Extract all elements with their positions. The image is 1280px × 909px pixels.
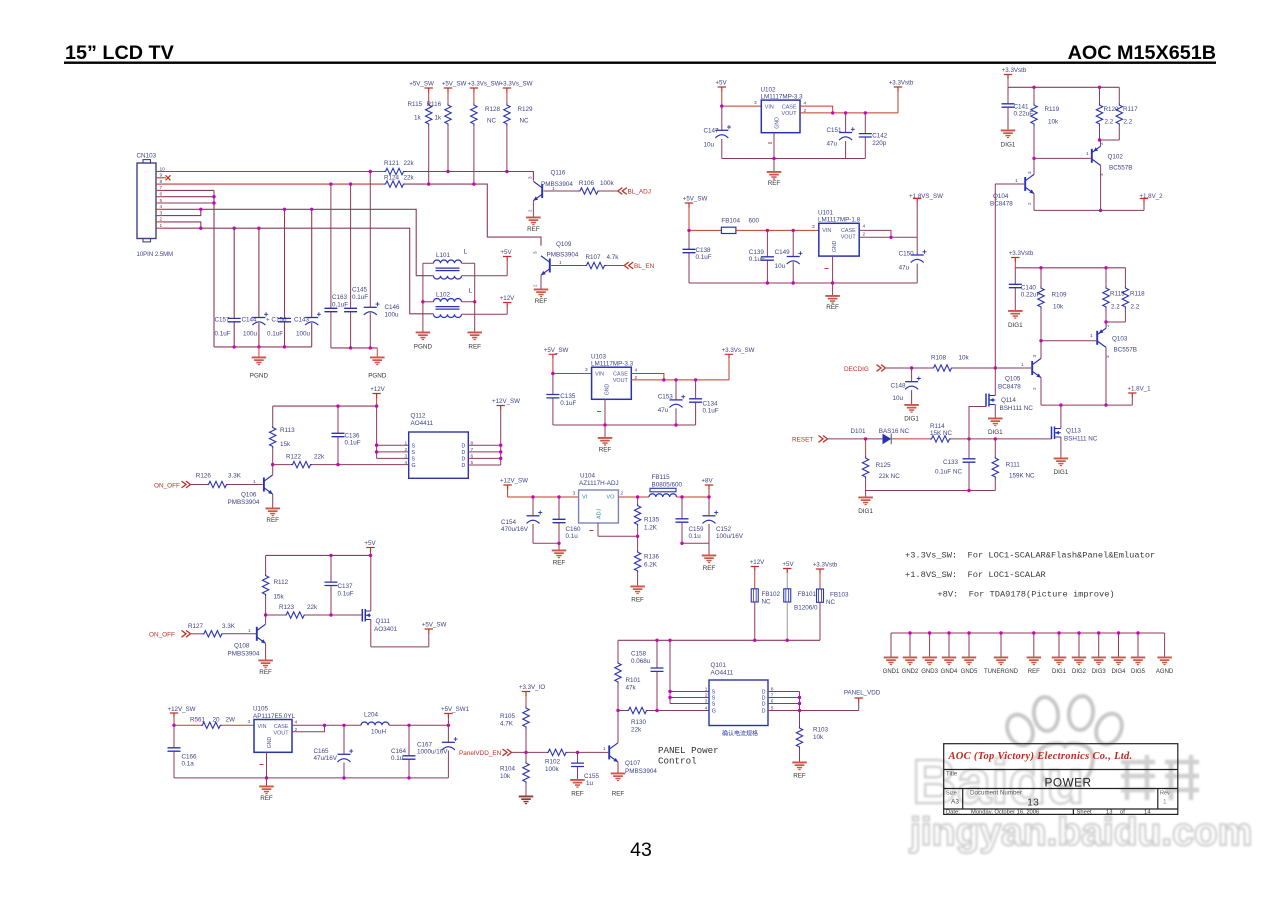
capacitor C153 bbox=[675, 380, 677, 425]
svg-text:确认电流规格: 确认电流规格 bbox=[722, 730, 758, 738]
CN103 pin 7 stub bbox=[156, 189, 164, 191]
wire NC bottom rail bbox=[866, 479, 996, 491]
svg-text:LM1117MP-3.3: LM1117MP-3.3 bbox=[591, 361, 634, 368]
wire U104 output row bbox=[618, 496, 649, 498]
svg-text:C140: C140 bbox=[1021, 285, 1037, 292]
power flag PANEL_VDD bbox=[855, 698, 863, 703]
ground PGND (cap bank 1) bbox=[258, 347, 260, 357]
svg-text:R115: R115 bbox=[1110, 291, 1125, 298]
ground AGND bbox=[1164, 633, 1166, 657]
ground REF (Q107) bbox=[611, 773, 626, 782]
ground REF (U101) bbox=[825, 295, 840, 304]
wire Q102 emitter to resistors bbox=[1100, 140, 1102, 146]
svg-text:Q107: Q107 bbox=[625, 760, 641, 767]
ground GND2 bbox=[909, 633, 911, 657]
svg-text:Q116: Q116 bbox=[551, 170, 566, 177]
svg-text:+3.3Vstb: +3.3Vstb bbox=[813, 562, 838, 569]
svg-text:2: 2 bbox=[863, 232, 866, 238]
connector CN103 bbox=[137, 163, 156, 239]
svg-text:600: 600 bbox=[749, 218, 760, 225]
svg-text:CN103: CN103 bbox=[137, 153, 157, 160]
svg-text:+12V_SW: +12V_SW bbox=[492, 398, 520, 405]
power flag +5V_SW (U103 in) bbox=[549, 354, 557, 359]
svg-text:S: S bbox=[412, 457, 416, 463]
svg-text:AOC M15X651B: AOC M15X651B bbox=[1068, 42, 1216, 64]
wire ON_OFF to R127 bbox=[191, 633, 202, 635]
svg-text:4: 4 bbox=[160, 204, 163, 210]
capacitor C141 bbox=[1007, 87, 1009, 129]
svg-text:100k: 100k bbox=[545, 766, 560, 773]
svg-text:0.1uF: 0.1uF bbox=[267, 331, 283, 338]
power flag +1.8V_1 bbox=[1128, 393, 1136, 398]
svg-text:DIG4: DIG4 bbox=[1111, 669, 1126, 675]
svg-text:2: 2 bbox=[528, 209, 533, 212]
svg-text:S: S bbox=[412, 443, 416, 449]
wire +12V rail (Q112) bbox=[273, 405, 377, 407]
svg-text:22k: 22k bbox=[404, 174, 415, 181]
wire R126 to Q106 base bbox=[228, 484, 263, 486]
svg-text:2: 2 bbox=[804, 108, 807, 114]
resistor R119 bbox=[1033, 87, 1035, 103]
wire C159/C152 ground rail bbox=[682, 542, 709, 544]
capacitor C136 bbox=[337, 406, 339, 465]
wire choke ground verticals bbox=[423, 263, 475, 302]
svg-text:R104: R104 bbox=[500, 766, 516, 773]
svg-text:C138: C138 bbox=[696, 247, 712, 254]
svg-text:1u: 1u bbox=[586, 780, 594, 787]
svg-text:ADJ: ADJ bbox=[597, 509, 603, 519]
svg-text:G: G bbox=[412, 463, 416, 469]
svg-text:220p: 220p bbox=[872, 140, 887, 147]
transistor Q116 PMBS3904 bbox=[541, 184, 543, 198]
svg-text:+5V: +5V bbox=[364, 540, 376, 547]
svg-text:3: 3 bbox=[812, 224, 815, 230]
wire Q113 source to ground bbox=[1060, 437, 1062, 458]
resistor R129 bbox=[506, 93, 508, 104]
svg-text:C163: C163 bbox=[332, 294, 348, 301]
wire Q116 base to R106 bbox=[544, 190, 579, 192]
svg-text:C150: C150 bbox=[899, 251, 915, 258]
svg-text:1: 1 bbox=[1021, 362, 1024, 368]
power flag +5V_SW (Q111 out) bbox=[425, 629, 433, 634]
svg-text:+5V_SW: +5V_SW bbox=[409, 81, 434, 88]
svg-text:+3.3Vstb: +3.3Vstb bbox=[1009, 250, 1034, 257]
capacitor C167 bbox=[447, 725, 449, 778]
transistor Q104 BC8478 bbox=[1024, 177, 1026, 191]
svg-text:DIG1: DIG1 bbox=[1008, 322, 1023, 329]
capacitor C135 bbox=[552, 374, 554, 426]
svg-text:1: 1 bbox=[405, 440, 408, 446]
svg-text:REF: REF bbox=[259, 669, 272, 676]
resistor R116 bbox=[447, 93, 449, 104]
wire R114 to Q113 gate bbox=[951, 438, 1052, 440]
svg-text:AO4411: AO4411 bbox=[711, 669, 734, 676]
mosfet Q113 BSH111 NC bbox=[1051, 427, 1053, 440]
inductor L204 bbox=[361, 722, 389, 725]
inductor L102 bbox=[434, 298, 462, 301]
svg-text:+3.3Vs_SW: +3.3Vs_SW bbox=[468, 81, 501, 88]
svg-text:2.2: 2.2 bbox=[1124, 119, 1133, 126]
CN103 pin 9 stub bbox=[156, 177, 164, 179]
svg-text:15k: 15k bbox=[274, 594, 285, 601]
svg-text:1: 1 bbox=[1015, 178, 1018, 184]
svg-text:L: L bbox=[464, 249, 468, 256]
capacitor C152 bbox=[708, 497, 710, 543]
capacitor C147 bbox=[721, 106, 723, 158]
svg-text:+5V: +5V bbox=[715, 80, 727, 87]
resistor R111 bbox=[992, 457, 998, 479]
svg-text:BC8478: BC8478 bbox=[998, 384, 1021, 391]
svg-text:R112: R112 bbox=[274, 579, 289, 586]
svg-text:22k: 22k bbox=[404, 160, 415, 167]
diode D101 BAS16 NC bbox=[883, 434, 892, 445]
svg-text:REF: REF bbox=[599, 447, 612, 454]
svg-text:C141: C141 bbox=[1014, 104, 1030, 111]
capacitor C146 bbox=[369, 172, 371, 348]
ground DIG3 bbox=[1098, 633, 1100, 657]
power flag +3.3Vstb (U102 out) bbox=[894, 87, 902, 92]
CN103 pin 10 stub bbox=[156, 171, 164, 173]
svg-text:4: 4 bbox=[405, 460, 408, 466]
svg-text:C137: C137 bbox=[338, 583, 354, 590]
CN103 pin 2 stub bbox=[156, 221, 164, 223]
capacitor C134 bbox=[695, 380, 697, 425]
resistor R109 bbox=[1040, 268, 1042, 287]
svg-text:+12V: +12V bbox=[500, 295, 515, 302]
svg-text:C144: C144 bbox=[242, 317, 258, 324]
svg-text:2.2: 2.2 bbox=[1105, 119, 1114, 126]
wire pins 7,6,5 to ground bus bbox=[164, 190, 215, 347]
capacitor C160 bbox=[558, 497, 560, 543]
svg-text:NC: NC bbox=[487, 118, 497, 125]
wire U101 ground rail bbox=[689, 256, 917, 283]
svg-text:VOUT: VOUT bbox=[841, 234, 857, 240]
svg-text:C135: C135 bbox=[560, 393, 576, 400]
mosfet Q111 AO3401 bbox=[361, 609, 363, 622]
svg-text:+1.8V_1: +1.8V_1 bbox=[1127, 386, 1151, 393]
svg-text:2: 2 bbox=[405, 447, 408, 453]
svg-text:FB103: FB103 bbox=[830, 592, 849, 599]
svg-text:+3.3Vs_SW: For LOC1-SCALAR&Fl: +3.3Vs_SW: For LOC1-SCALAR&Flash&Panel&E… bbox=[905, 551, 1155, 561]
svg-text:CASE: CASE bbox=[782, 105, 797, 111]
svg-text:+3.3Vstb: +3.3Vstb bbox=[1002, 67, 1027, 74]
svg-text:C134: C134 bbox=[703, 401, 719, 408]
power flag +12V (Q112) bbox=[372, 394, 380, 399]
svg-text:R117: R117 bbox=[1123, 106, 1138, 113]
power flag +3.3Vstb (FB103) bbox=[816, 569, 824, 574]
svg-text:4.7k: 4.7k bbox=[607, 254, 620, 261]
svg-text:GND: GND bbox=[267, 737, 273, 749]
svg-text:2W: 2W bbox=[226, 717, 236, 724]
svg-text:3: 3 bbox=[754, 100, 757, 106]
ground GND4 bbox=[948, 633, 950, 657]
capacitor C156 bbox=[284, 209, 286, 347]
wire Q107 emitter to ground bbox=[617, 762, 619, 773]
svg-text:+12V_SW: +12V_SW bbox=[500, 478, 528, 485]
svg-text:TUNERGND: TUNERGND bbox=[984, 669, 1019, 675]
svg-text:9: 9 bbox=[160, 173, 163, 179]
header underline bbox=[64, 62, 1216, 64]
power flag +5V_SW1 (U105 out) bbox=[444, 714, 452, 719]
wire Q111 drain to +5V_SW bbox=[371, 620, 429, 647]
wire U105 output bbox=[292, 725, 361, 732]
wire Q102 base bbox=[1034, 157, 1091, 159]
power flag +5V_SW bbox=[444, 88, 452, 93]
svg-text:R108: R108 bbox=[931, 355, 947, 362]
wire R106 to BL_ADJ bbox=[600, 190, 618, 192]
svg-text:VIN: VIN bbox=[595, 372, 604, 378]
power flag +5V (FB101) bbox=[783, 569, 791, 574]
svg-text:PANEL_VDD: PANEL_VDD bbox=[844, 690, 881, 697]
svg-text:L: L bbox=[469, 288, 473, 295]
resistor R128 bbox=[473, 93, 475, 104]
capacitor C158 bbox=[656, 640, 658, 710]
wire net pin10 (BL_ADJ drive) bbox=[164, 171, 385, 173]
resistor R135 bbox=[637, 497, 639, 504]
svg-text:VIN: VIN bbox=[258, 724, 267, 730]
ground REF (C160) bbox=[552, 550, 567, 559]
svg-text:1: 1 bbox=[253, 479, 256, 485]
svg-text:3: 3 bbox=[1027, 171, 1032, 174]
resistor R115 bbox=[428, 93, 430, 104]
svg-text:VI: VI bbox=[582, 495, 588, 501]
ground TUNERGND bbox=[1000, 633, 1002, 657]
svg-text:5: 5 bbox=[160, 198, 163, 204]
svg-text:Q109: Q109 bbox=[556, 241, 572, 248]
svg-text:REF: REF bbox=[468, 344, 481, 351]
svg-text:R109: R109 bbox=[1052, 292, 1068, 299]
power flag +1.8VS_SW bbox=[913, 199, 921, 204]
svg-text:REF: REF bbox=[612, 791, 625, 798]
svg-text:R103: R103 bbox=[813, 727, 829, 734]
svg-text:3: 3 bbox=[573, 491, 576, 497]
svg-text:+1.8V_2: +1.8V_2 bbox=[1139, 193, 1163, 200]
svg-text:GND2: GND2 bbox=[902, 669, 919, 675]
svg-text:1: 1 bbox=[1086, 151, 1089, 157]
svg-text:+12V_SW: +12V_SW bbox=[167, 706, 195, 713]
svg-text:3: 3 bbox=[1099, 173, 1104, 176]
svg-text:47u: 47u bbox=[899, 265, 910, 272]
resistor R104 bbox=[525, 752, 527, 761]
svg-text:C153: C153 bbox=[658, 394, 674, 401]
svg-text:REF: REF bbox=[1028, 669, 1040, 675]
svg-text:NC: NC bbox=[826, 599, 836, 606]
svg-text:Q103: Q103 bbox=[1112, 336, 1128, 343]
wire R108 to Q105 base bbox=[953, 367, 1031, 369]
svg-text:BL_ADJ: BL_ADJ bbox=[628, 189, 651, 196]
svg-text:D: D bbox=[762, 709, 766, 715]
svg-text:Control: Control bbox=[658, 756, 697, 767]
resistor R114 bbox=[930, 436, 951, 442]
wire C154/C160 ground rail bbox=[533, 542, 559, 544]
svg-text:R106: R106 bbox=[579, 180, 595, 187]
capacitor C137 bbox=[330, 555, 332, 615]
power flag +5V (choke out) bbox=[503, 257, 511, 262]
transistor Q103 BC557B bbox=[1096, 331, 1098, 345]
resistor R102 bbox=[547, 749, 568, 755]
svg-text:B0805/600: B0805/600 bbox=[652, 481, 683, 488]
wire DECDIG to R108 bbox=[886, 367, 932, 369]
svg-text:CASE: CASE bbox=[274, 724, 289, 730]
svg-text:+1.8VS_SW: +1.8VS_SW bbox=[909, 193, 943, 200]
mosfet array Q101 AO4411 bbox=[709, 680, 768, 726]
wire U103 output bbox=[631, 359, 729, 380]
svg-text:PGND: PGND bbox=[250, 373, 269, 380]
svg-text:2.2: 2.2 bbox=[1111, 304, 1120, 311]
svg-text:D: D bbox=[462, 450, 466, 456]
wire panel top rail bbox=[618, 639, 820, 641]
svg-text:R122: R122 bbox=[286, 454, 302, 461]
svg-text:D: D bbox=[462, 463, 466, 469]
svg-text:C147: C147 bbox=[704, 128, 720, 135]
svg-text:PANEL Power: PANEL Power bbox=[658, 745, 719, 756]
svg-text:Q113: Q113 bbox=[1066, 428, 1081, 435]
svg-text:S: S bbox=[712, 702, 716, 708]
ground DIG4 bbox=[1118, 633, 1120, 657]
svg-text:15k: 15k bbox=[280, 441, 291, 448]
wire Q104 emitter to rail bbox=[1033, 194, 1035, 211]
resistor R561 bbox=[201, 722, 222, 728]
svg-text:100k: 100k bbox=[600, 180, 615, 187]
power flag +1.8V_2 bbox=[1140, 199, 1148, 204]
svg-text:R135: R135 bbox=[644, 517, 660, 524]
svg-text:1: 1 bbox=[248, 628, 251, 634]
transistor Q109 PMBS3904 bbox=[549, 259, 551, 273]
svg-text:GND1: GND1 bbox=[883, 669, 900, 675]
svg-text:159K NC: 159K NC bbox=[1009, 473, 1035, 480]
svg-text:0.1uF: 0.1uF bbox=[345, 440, 361, 447]
svg-text:GND: GND bbox=[774, 117, 780, 129]
transistor Q102 BC557B bbox=[1091, 149, 1093, 163]
svg-text:BC557B: BC557B bbox=[1114, 347, 1137, 354]
svg-text:DIG1: DIG1 bbox=[1001, 142, 1016, 149]
svg-text:22k: 22k bbox=[307, 604, 318, 611]
svg-text:NC: NC bbox=[762, 599, 772, 606]
ground DIG1 (R125) bbox=[865, 491, 867, 497]
svg-text:2: 2 bbox=[533, 284, 538, 287]
wire Q107 collector bbox=[617, 711, 619, 743]
ground REF (Q116) bbox=[526, 217, 541, 226]
svg-text:C154: C154 bbox=[501, 519, 517, 526]
ground REF (R103) bbox=[792, 762, 807, 771]
svg-text:3: 3 bbox=[528, 176, 533, 179]
svg-text:10PIN 2.5MM: 10PIN 2.5MM bbox=[137, 252, 174, 258]
svg-text:PGND: PGND bbox=[368, 373, 387, 380]
svg-text:3.3K: 3.3K bbox=[222, 623, 236, 630]
wire U102 gnd stem bbox=[773, 159, 775, 172]
svg-text:DIG1: DIG1 bbox=[988, 429, 1003, 436]
capacitor C144 bbox=[258, 228, 260, 347]
wire Q114 drain (DECDIG net vertical) bbox=[994, 184, 996, 396]
ground DIG1 (C141) bbox=[1001, 130, 1016, 139]
svg-text:VOUT: VOUT bbox=[274, 731, 290, 737]
svg-text:U102: U102 bbox=[761, 87, 777, 94]
svg-text:Q105: Q105 bbox=[1005, 376, 1021, 383]
svg-text:6: 6 bbox=[160, 192, 163, 198]
wire Q105 emitter to +1.8V_1 rail bbox=[1041, 378, 1132, 406]
svg-text:2: 2 bbox=[621, 491, 624, 497]
no-connect X on pin 9 bbox=[166, 175, 171, 180]
svg-text:3: 3 bbox=[705, 699, 708, 705]
wire net pin8 (BL_EN drive) bbox=[164, 183, 385, 185]
resistor R108 bbox=[932, 365, 953, 371]
voltage regulator U102 LM1117MP-3.3 bbox=[761, 100, 800, 133]
net label BL_EN bbox=[624, 262, 633, 269]
capacitor C155 bbox=[577, 752, 579, 779]
svg-text:R561: R561 bbox=[190, 717, 206, 724]
wire U103 ground rail bbox=[553, 399, 696, 425]
wire U105 ground rail bbox=[174, 752, 448, 778]
svg-text:10uH: 10uH bbox=[371, 729, 387, 736]
wire +3.3Vstb rail 2 bbox=[1015, 267, 1125, 269]
ground REF bbox=[1033, 633, 1035, 657]
svg-text:4.7K: 4.7K bbox=[500, 721, 514, 728]
svg-text:+5V_SW: +5V_SW bbox=[442, 81, 467, 88]
svg-text:C133: C133 bbox=[943, 459, 959, 466]
voltage regulator U105 AP1117E5.0YL bbox=[254, 720, 292, 753]
ferrite bead FB115 B0805/600 bbox=[649, 494, 677, 497]
svg-text:10k: 10k bbox=[500, 773, 511, 780]
capacitor C151 bbox=[845, 113, 847, 159]
svg-text:Q114: Q114 bbox=[1001, 397, 1016, 404]
resistor R121 bbox=[384, 168, 405, 174]
decorative watermark bbox=[909, 694, 1252, 854]
svg-text:47k: 47k bbox=[626, 685, 637, 692]
svg-text:AZ1117H-ADJ: AZ1117H-ADJ bbox=[579, 480, 619, 487]
ground (R104) bbox=[519, 796, 534, 805]
mosfet Q114 BSH111 NC bbox=[969, 407, 986, 439]
svg-text:0.1uF: 0.1uF bbox=[560, 400, 576, 407]
wire Q104 collector bbox=[1033, 158, 1035, 174]
capacitor C139 bbox=[766, 230, 768, 283]
svg-text:REF: REF bbox=[793, 773, 806, 780]
svg-text:REF: REF bbox=[535, 298, 548, 305]
wire Q106 emitter to ground bbox=[272, 494, 274, 507]
svg-text:AGND: AGND bbox=[1156, 669, 1174, 675]
svg-text:15” LCD TV: 15” LCD TV bbox=[65, 42, 175, 64]
ground DIG1 (Q114) bbox=[988, 418, 1003, 427]
svg-text:10k: 10k bbox=[1048, 119, 1059, 126]
svg-text:100u: 100u bbox=[385, 312, 400, 319]
svg-text:C166: C166 bbox=[182, 754, 198, 761]
svg-text:R125: R125 bbox=[876, 462, 892, 469]
ground DIG2 bbox=[1078, 633, 1080, 657]
svg-text:+1.8VS_SW: For LOC1-SCALAR: +1.8VS_SW: For LOC1-SCALAR bbox=[905, 570, 1046, 580]
svg-text:0.1u: 0.1u bbox=[391, 755, 404, 762]
svg-text:VO: VO bbox=[606, 495, 615, 501]
svg-text:RESET: RESET bbox=[792, 437, 813, 444]
capacitor C154 bbox=[532, 497, 534, 543]
wire ground bus rail bbox=[891, 632, 1165, 634]
ferrite bead FB101 B1206/0 bbox=[786, 573, 788, 589]
svg-text:REF: REF bbox=[527, 226, 540, 233]
svg-text:VIN: VIN bbox=[765, 105, 774, 111]
wire Q101 drain pins bbox=[768, 692, 800, 711]
svg-text:REF: REF bbox=[826, 304, 839, 311]
power flag +12V (choke out) bbox=[503, 303, 511, 308]
svg-text:GND4: GND4 bbox=[941, 669, 958, 675]
ground REF (R136) bbox=[630, 586, 645, 595]
resistor R113 bbox=[272, 406, 274, 426]
svg-text:+8V: +8V bbox=[701, 478, 713, 485]
svg-text:0.068u: 0.068u bbox=[631, 658, 651, 665]
svg-text:PMBS3904: PMBS3904 bbox=[625, 768, 657, 775]
CN103 pin 5 stub bbox=[156, 202, 164, 204]
svg-text:AP1117E5.0YL: AP1117E5.0YL bbox=[253, 713, 296, 720]
wire ON_OFF to R126 bbox=[191, 484, 207, 486]
power flag +5V_SW (U101 in) bbox=[685, 203, 693, 208]
wire cap bank rail 1 bbox=[214, 346, 312, 348]
